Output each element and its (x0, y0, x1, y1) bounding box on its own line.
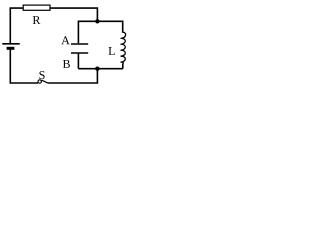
capacitor plate B (bottom) (71, 52, 88, 54)
label B (63, 60, 70, 68)
switch S blade (42, 80, 49, 83)
wire bottom left (switch to battery) (10, 50, 38, 83)
label L (108, 47, 114, 55)
label S (39, 71, 44, 79)
battery short plate (-) (7, 47, 15, 50)
junction dot top (95, 19, 99, 23)
wire bottom right (junction down and left to switch) (48, 69, 97, 83)
label A (61, 36, 69, 44)
wire LC bottom rail (78, 68, 122, 70)
wire inductor bottom lead (122, 64, 124, 69)
resistor R (box) (23, 5, 50, 10)
label R (33, 16, 41, 24)
junction dot bottom (95, 67, 99, 71)
wire top right (resistor to corner, down to top junction) (50, 8, 98, 21)
battery long plate (+) (2, 43, 19, 45)
wire LC top rail (78, 21, 122, 43)
inductor L (coil) (121, 32, 126, 64)
wire left vertical (battery to top-left corner) and top wire into resistor (10, 8, 23, 43)
wire capacitor bottom lead to bottom rail (77, 54, 79, 69)
capacitor plate A (top) (71, 43, 88, 45)
switch S pivot circle (38, 80, 41, 83)
